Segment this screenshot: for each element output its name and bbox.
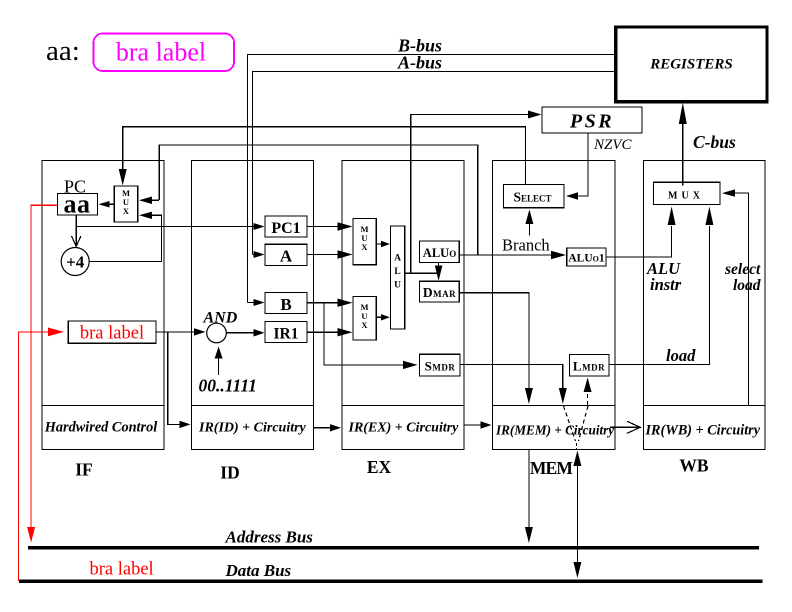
open arrow into +4 [72, 236, 81, 247]
svg-text:ALUo: ALUo [423, 246, 456, 260]
AND circle [207, 323, 227, 343]
svg-text:C-bus: C-bus [693, 132, 736, 152]
IF column box [42, 161, 164, 450]
IF column divider [42, 405, 164, 407]
svg-text:WB: WB [679, 456, 709, 476]
svg-text:Lmdr: Lmdr [573, 359, 605, 374]
SMDR output wire [460, 364, 563, 389]
arrow into aa box [99, 201, 110, 208]
wire ALUo to DMAR [438, 263, 440, 267]
B box [265, 293, 307, 314]
arrow into AND bottom [215, 347, 223, 359]
A box [265, 244, 307, 265]
LMDR box [570, 355, 610, 376]
IR1 box [265, 322, 307, 343]
WB column box [644, 161, 766, 450]
svg-text:aa:: aa: [46, 35, 80, 67]
dashed tail [576, 443, 578, 449]
B-bus arrow into B [254, 299, 265, 306]
svg-text:Hardwired Control: Hardwired Control [44, 420, 157, 436]
ID column divider [192, 405, 314, 407]
arrow into address bus [525, 527, 533, 543]
dashed wire up into LMDR [587, 391, 589, 405]
svg-text:+4: +4 [66, 253, 85, 272]
SMDR box [420, 354, 461, 376]
arrow into WB MUX right [722, 189, 735, 196]
arrow +4 loop into MUX right lower [139, 212, 152, 219]
EX MUX2 box [353, 297, 376, 341]
arrow EX to MEM label box [464, 424, 481, 426]
svg-text:PSR: PSR [569, 111, 614, 133]
dashed V right [579, 406, 589, 441]
SELECT box [504, 185, 565, 208]
svg-text:EX: EX [367, 457, 392, 477]
arrow into LMDR bottom [584, 378, 592, 393]
ALUo output wire to ALUo1 [459, 254, 556, 256]
PC aa box [57, 194, 97, 216]
svg-text:Address Bus: Address Bus [225, 528, 314, 547]
A-bus horizontal into A [253, 254, 256, 256]
svg-text:IR(WB) + Circuitry: IR(WB) + Circuitry [645, 423, 761, 439]
svg-text:load: load [666, 346, 696, 365]
svg-text:Smdr: Smdr [425, 359, 456, 374]
svg-text:Data Bus: Data Bus [225, 561, 292, 580]
ID column box [192, 161, 314, 450]
wire branch to IR(ID) box [168, 332, 181, 425]
WB MUX box [654, 182, 721, 204]
DMAR output wire [459, 293, 529, 389]
svg-text:MEM: MEM [530, 458, 574, 478]
red arrow into bra label box [48, 328, 64, 337]
arrow into SELECT bottom [525, 210, 533, 225]
PC1 box [265, 216, 307, 237]
REGISTERS box [616, 27, 767, 102]
svg-text:select: select [724, 261, 761, 278]
wire PC1 to EX MUX1 [307, 226, 339, 228]
PSR box [542, 107, 642, 133]
svg-text:A: A [394, 254, 401, 264]
wire A to EX MUX1 [307, 254, 339, 256]
EX MUX1 box [353, 218, 376, 264]
svg-text:ALUo1: ALUo1 [568, 253, 605, 265]
arrow ALU instr into MUX bottom [668, 207, 676, 226]
svg-text:Dmar: Dmar [423, 285, 456, 300]
wire to PSR from ALU output [411, 115, 532, 274]
svg-text:bra label: bra label [90, 560, 154, 580]
svg-text:bra label: bra label [80, 324, 144, 344]
EX column divider [342, 405, 464, 407]
wire select load from IR(WB) [733, 193, 749, 405]
wire aa down to +4 [75, 215, 77, 245]
big arrow into IF MUX top [119, 169, 127, 186]
Address Bus line [28, 546, 759, 550]
wire branch up into SELECT [528, 220, 530, 236]
svg-text:IR(EX) + Circuitry: IR(EX) + Circuitry [348, 421, 460, 436]
svg-text:A-bus: A-bus [397, 53, 442, 73]
svg-text:Select: Select [513, 190, 551, 205]
MEM column divider [493, 405, 616, 407]
wire LMDR to WB MUX [609, 226, 709, 364]
arrow into IF MUX right upper [139, 197, 152, 205]
arrow into ALUo1 [551, 251, 566, 259]
arrow into SELECT right [566, 192, 578, 199]
svg-text:B: B [280, 295, 291, 314]
arrow into PSR [528, 111, 542, 119]
wire bra label to AND [156, 331, 196, 333]
C-bus wire [682, 124, 684, 186]
wire C top (ALU result to PC mux) [159, 145, 478, 255]
svg-text:REGISTERS: REGISTERS [649, 57, 733, 73]
arrow into DMAR [435, 266, 443, 281]
B-bus wire [247, 55, 615, 303]
svg-text:IR(ID) + Circuitry: IR(ID) + Circuitry [198, 421, 307, 436]
wire IR1 to EX MUX2 [307, 331, 339, 333]
arrow ID to EX label box [314, 427, 332, 429]
svg-text:X: X [123, 206, 130, 216]
wire MUX to aa [107, 203, 114, 205]
wire mask up into AND [218, 357, 220, 375]
arrow into PC1 [254, 223, 265, 230]
svg-text:bra label: bra label [116, 38, 206, 67]
svg-text:PC1: PC1 [271, 220, 300, 237]
svg-text:instr: instr [650, 275, 682, 294]
arrow SMDR wire into IR(MEM) box [559, 388, 567, 404]
svg-text:IR(MEM) + Circuitry: IR(MEM) + Circuitry [495, 423, 614, 438]
wire B operand down to SMDR [324, 303, 405, 365]
wire MUX1 to ALU [376, 243, 383, 245]
ALUo1 box [567, 248, 606, 266]
wire MUX2 to ALU [376, 316, 383, 318]
arrow down into data bus [573, 562, 581, 578]
ALU output wire [405, 272, 439, 274]
EX column box [342, 161, 464, 450]
svg-text:load: load [733, 277, 761, 294]
wire B to EX MUX2 [307, 302, 339, 304]
svg-text:ID: ID [220, 463, 239, 483]
NZVC wire PSR to SELECT [576, 133, 588, 196]
wire IR(MEM) to data bus [576, 464, 578, 563]
red arrow down [27, 527, 35, 543]
WB column divider [644, 405, 766, 407]
A-bus arrow into A [254, 251, 265, 258]
svg-text:X: X [361, 320, 368, 330]
ALUo box [420, 241, 460, 263]
MEM column box [493, 161, 616, 450]
ALU box [391, 226, 405, 329]
red wire to bra label and data bus [18, 332, 48, 581]
IF MUX box [114, 186, 138, 222]
arrow into IR1 [254, 329, 265, 336]
arrow up into IR(MEM) bottom [573, 451, 581, 467]
wire select wire B top [123, 127, 526, 185]
dashed V left [564, 406, 576, 441]
svg-text:IF: IF [75, 460, 93, 480]
arrow into SMDR [403, 361, 418, 369]
bra label box (IF) [68, 321, 156, 343]
A-bus wire [253, 72, 616, 255]
wire IR(MEM) down to address bus [528, 450, 530, 529]
arrow DMAR wire into IR(MEM) box [525, 388, 533, 404]
svg-text:IR1: IR1 [274, 326, 299, 343]
+4 circle [61, 248, 89, 276]
svg-text:aa: aa [64, 190, 91, 219]
arrow into AND [194, 328, 206, 335]
svg-text:NZVC: NZVC [593, 137, 633, 153]
wire +4 loop to MUX [89, 215, 161, 261]
wire AND to IR1 [226, 332, 256, 334]
DMAR box [420, 281, 460, 302]
svg-text:L: L [394, 267, 400, 277]
arrow into IR(ID) box [180, 421, 191, 428]
wire PC output to PC1 [76, 226, 253, 228]
wire ALUo1 to WB MUX [606, 226, 672, 257]
svg-text:Branch: Branch [502, 236, 550, 255]
svg-text:A: A [280, 247, 293, 266]
svg-text:MUX: MUX [668, 191, 704, 202]
Data Bus line [19, 579, 762, 583]
arrow load into MUX bottom [705, 207, 713, 226]
svg-text:U: U [394, 281, 401, 291]
C-bus arrow into REGISTERS [679, 103, 687, 125]
red wire aa to address bus [31, 205, 57, 527]
svg-text:00..1111: 00..1111 [199, 376, 257, 396]
svg-text:X: X [361, 242, 368, 252]
bra label magenta box [94, 34, 235, 72]
open arrow MEM to WB label box [610, 426, 640, 428]
